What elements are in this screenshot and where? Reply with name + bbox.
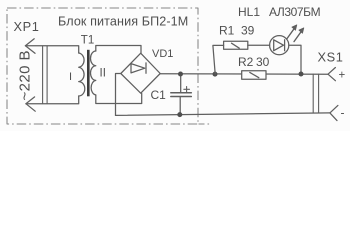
svg-text:Блок питания БП2-1М: Блок питания БП2-1М <box>58 15 188 29</box>
wire: XP1 pin1 to T1 primary top <box>25 46 78 53</box>
svg-text:II: II <box>100 68 106 80</box>
enclosure bottom edge overshoot <box>199 123 212 125</box>
bridge rectifier VD1 (diamond) <box>121 53 160 93</box>
XP1 mating face (double line) <box>42 46 44 104</box>
svg-text:XS1: XS1 <box>318 50 344 65</box>
svg-text:-: - <box>341 105 345 119</box>
resistor R1 body <box>224 41 248 49</box>
wire: LED to plus rail junction <box>289 45 301 74</box>
transformer T1 core <box>87 50 90 97</box>
svg-text:XP1: XP1 <box>14 19 40 34</box>
wire: R1 to LED HL1 <box>248 44 270 46</box>
svg-text:+: + <box>339 70 346 82</box>
transformer T1 primary winding I <box>79 53 85 96</box>
LED HL1 diode triangle <box>274 40 284 51</box>
C1 polarity plus sign <box>184 87 190 93</box>
connector XS1 socket contact + <box>328 68 335 81</box>
capacitor C1 plates <box>171 92 192 94</box>
enclosure: power supply block boundary (dash-dot frame) <box>7 8 198 124</box>
XS1 mating face (double line) <box>312 74 314 113</box>
wire: branch up from plus rail to R1 <box>213 45 224 74</box>
capacitor C1 positive lead <box>180 74 182 92</box>
R2 power-rating slash <box>250 72 259 77</box>
resistor R2 body <box>242 71 266 79</box>
svg-text:I: I <box>69 71 72 83</box>
LED HL1 cathode bar <box>284 40 286 51</box>
wire: plus rail from bridge to XS1 <box>160 73 328 75</box>
wire: XP1 pin2 to T1 primary bottom <box>26 96 79 104</box>
LED HL1 emission arrow 2 <box>294 30 302 41</box>
svg-text:R1: R1 <box>219 24 235 38</box>
junction: R1 branch on plus rail <box>213 72 218 77</box>
svg-text:39: 39 <box>241 24 255 38</box>
LED HL1 emission arrow 1 <box>287 27 295 38</box>
wire: bridge minus output, around below bridge to minus rail <box>116 74 121 116</box>
junction: LED branch on plus rail <box>299 72 304 77</box>
junction: C1 top on plus rail <box>178 72 183 77</box>
connector XS1 socket contact - <box>330 105 338 120</box>
svg-text:АЛ307БМ: АЛ307БМ <box>269 5 321 19</box>
svg-text:30: 30 <box>256 55 270 69</box>
svg-text:C1: C1 <box>151 88 167 102</box>
svg-text:HL1: HL1 <box>238 5 260 19</box>
capacitor C1 negative lead <box>179 97 181 115</box>
wire: secondary top to bridge AC input (top corner) <box>96 46 141 54</box>
bridge VD1 inner diode <box>131 64 145 73</box>
junction: C1 bottom on minus rail <box>177 112 182 117</box>
svg-text:~220 В: ~220 В <box>17 50 34 100</box>
wire: minus rail to XS1 <box>116 113 330 115</box>
R1 power-rating slash <box>232 43 240 48</box>
svg-text:VD1: VD1 <box>152 48 173 60</box>
svg-text:R2: R2 <box>238 55 254 69</box>
svg-text:T1: T1 <box>81 35 94 47</box>
LED HL1 circle <box>270 36 289 55</box>
wire: secondary bottom to bridge AC input (bottom corner) <box>96 93 142 103</box>
transformer T1 secondary winding II <box>91 51 96 95</box>
connector XP1 pin 1 (plug arrow, top) <box>25 39 35 54</box>
connector XP1 pin 2 (plug arrow, bottom) <box>26 97 35 111</box>
